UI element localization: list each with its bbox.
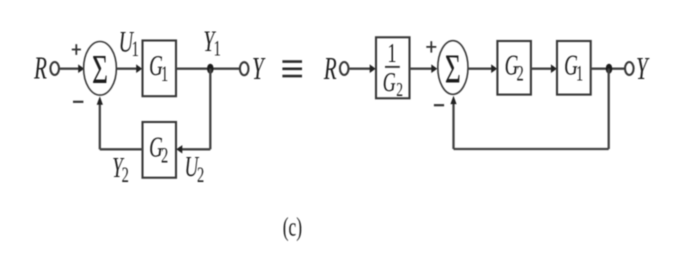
equivalence symbol [282, 62, 302, 77]
minus sign (left summer) [73, 101, 83, 103]
svg-text:1: 1 [214, 36, 221, 60]
svg-text:(c): (c) [283, 212, 302, 241]
label Y2 [112, 152, 129, 186]
svg-text:2: 2 [122, 163, 129, 187]
arrowhead up into summer (right) [450, 96, 456, 105]
svg-text:1: 1 [132, 37, 139, 61]
block 1/G2 [376, 37, 410, 98]
wire R to summer [59, 68, 78, 70]
wire summer to G2 (right) [468, 68, 492, 70]
svg-text:Y: Y [252, 51, 266, 86]
node junction dot (right) [606, 64, 613, 74]
wire feedback to G2 input [182, 148, 210, 150]
output terminal circle (left Y) [240, 62, 249, 75]
wire up into summer minus (right) [452, 103, 454, 150]
summing junction S1 (left) [84, 42, 117, 96]
summing junction S2 (right) [438, 41, 468, 95]
wire G1 to output Y (right) [591, 68, 625, 70]
wire G2 output to summer (left) [100, 148, 143, 150]
label U1 [119, 24, 139, 60]
plus sign (right summer) [426, 41, 436, 52]
svg-text:Σ: Σ [92, 47, 108, 93]
plus sign (left summer) [72, 44, 81, 55]
arrowhead into summer U1 input [78, 64, 84, 73]
svg-text:2: 2 [197, 163, 204, 187]
wire feedback bottom (right) [454, 148, 609, 150]
arrowhead into summer (right) [431, 64, 437, 73]
arrowhead into G1 [136, 64, 142, 73]
svg-text:R: R [33, 50, 47, 85]
input terminal circle (left R) [50, 62, 59, 75]
svg-text:1: 1 [388, 38, 397, 67]
arrowhead into 1/G2 [370, 64, 376, 73]
arrowhead up into summer (left) [97, 96, 103, 105]
wire summer to G1 [117, 68, 137, 70]
svg-text:1: 1 [161, 62, 168, 86]
svg-text:R: R [323, 51, 337, 86]
block G2 (left feedback) [143, 122, 177, 178]
arrowhead into G1 (right) [551, 64, 557, 73]
input terminal circle (right R) [340, 62, 349, 75]
wire 1/G2 to summer (right) [410, 68, 433, 70]
arrowhead into G2 (right) [491, 64, 497, 73]
svg-text:2: 2 [161, 144, 168, 168]
wire G2 to G1 (right) [531, 68, 552, 70]
arrowhead into G2 (left, pointing left) [176, 145, 182, 153]
node junction dot (left Y1) [207, 64, 214, 74]
label U2 [185, 151, 205, 187]
svg-text:2: 2 [396, 78, 403, 100]
wire node down (right feedback) [608, 69, 610, 149]
wire node down (left feedback) [209, 69, 211, 150]
svg-text:2: 2 [516, 62, 523, 86]
block G1 (right) [557, 41, 591, 95]
svg-text:1: 1 [576, 62, 583, 86]
wire G1 to output Y [176, 68, 240, 70]
svg-text:G: G [383, 67, 396, 96]
label Y1 [203, 24, 221, 60]
wire R to block 1/G2 [349, 68, 371, 70]
output terminal circle (right Y) [625, 62, 634, 75]
block G1 (left) [143, 41, 177, 97]
wire up into summer minus input [99, 103, 101, 149]
minus sign (right summer) [434, 104, 444, 106]
block G2 (right) [497, 41, 531, 95]
svg-text:Y: Y [636, 51, 650, 86]
svg-text:Σ: Σ [445, 46, 461, 92]
